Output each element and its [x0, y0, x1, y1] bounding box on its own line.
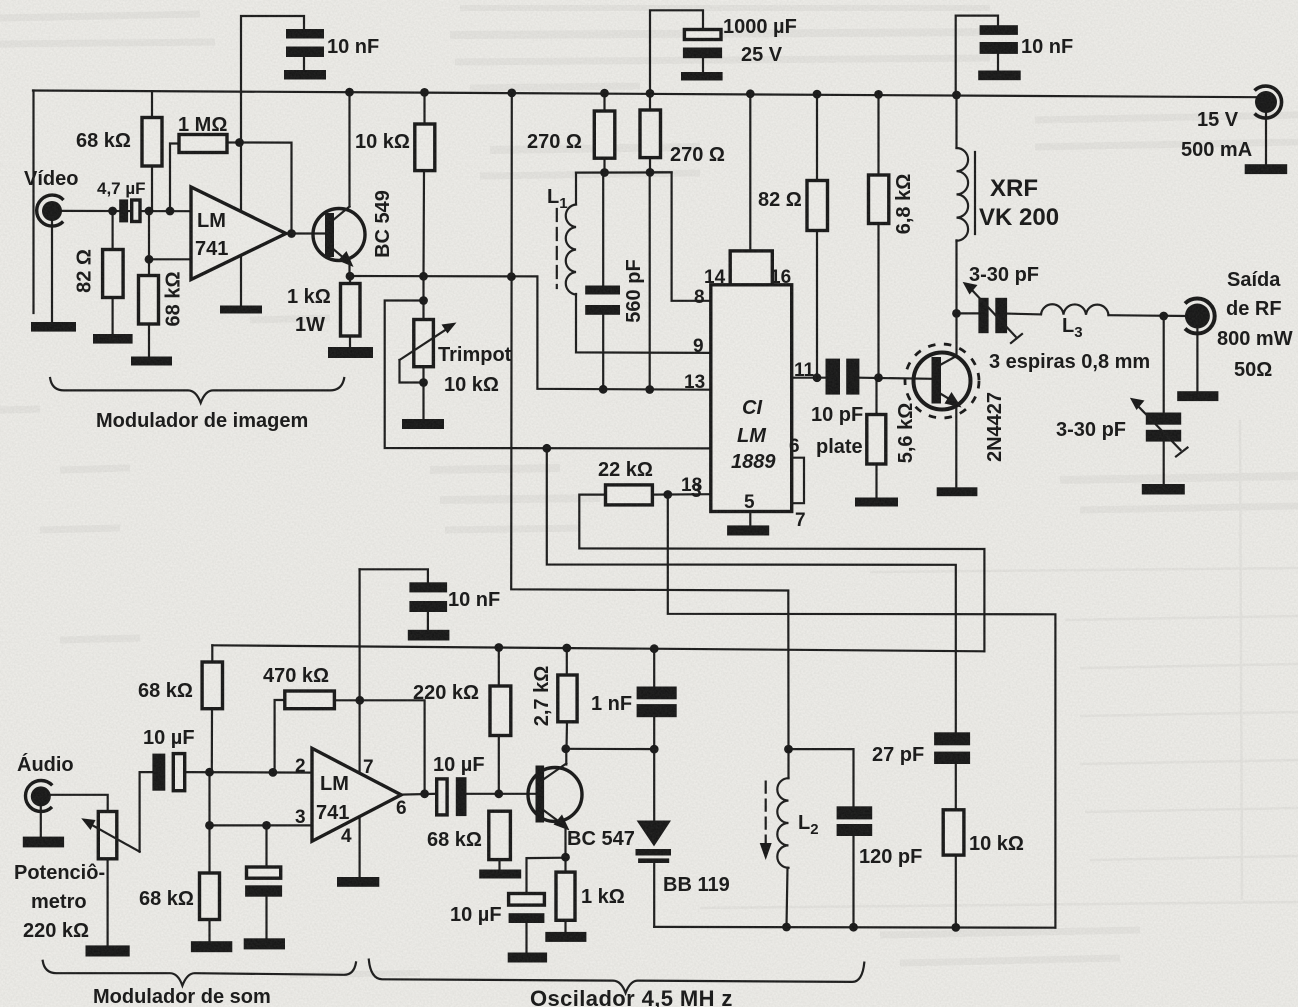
wire C8 ground stub: [265, 897, 267, 939]
pin 7 U2: [363, 757, 374, 778]
wire 270R R8 to pin13 line: [649, 173, 651, 390]
node 1nF-BB119: [650, 745, 659, 754]
capacitor 1000uF C2 plus plate: [684, 30, 721, 40]
wire C7 ground stub: [427, 612, 429, 630]
ground 1k R14: [545, 932, 586, 942]
wire 270R R8 top: [649, 93, 651, 110]
pin 7 LM1889: [795, 510, 806, 531]
node oscrail-2.7k: [562, 644, 571, 653]
label supply 15V: [1197, 109, 1239, 131]
ground 82R R2: [93, 334, 133, 344]
wire 10uF C10 to Q2 base node: [467, 793, 499, 795]
label R8 value: [670, 144, 725, 166]
wire wiper to 10uF C9: [140, 772, 153, 852]
transistor Q3 2N4427: [905, 344, 979, 418]
pin 14 LM1889: [704, 267, 726, 288]
wire pin4 vertical through U2 to ground: [359, 569, 361, 877]
node noninv input: [145, 255, 154, 264]
wire Q2 base lead: [499, 793, 536, 795]
wire audio jack stem: [40, 805, 42, 837]
wire node B bus to 27pF chain: [547, 448, 956, 732]
resistor 68k R1: [142, 118, 162, 167]
brace modulador de imagem: [50, 378, 344, 403]
label R7 value: [527, 131, 582, 153]
wire 220k R16 bottom to output node: [498, 736, 500, 794]
node oscrail-220k: [494, 643, 503, 652]
wire Q3 collector into circle: [955, 313, 957, 357]
node rail-XRF: [952, 91, 961, 100]
connector RF output jack: [1185, 299, 1215, 334]
wire BB119 to bottom bus: [653, 863, 655, 927]
wire 220k R16 top: [498, 646, 500, 686]
wire 1k R5 bottom to ground: [349, 336, 351, 347]
label CV1 value: [969, 264, 1039, 286]
wire Q3 emitter to ground: [955, 404, 957, 487]
resistor 82R R9: [807, 181, 828, 231]
wire L2 bottom lead: [787, 868, 788, 927]
label section oscillator: [530, 986, 733, 1007]
wire trimpot branch to LM1889 left pin: [385, 301, 711, 449]
wire cap C8 branch: [265, 825, 267, 867]
label R5 power: [295, 314, 325, 336]
wire feedback to U2 output: [360, 700, 425, 794]
ground 68k R18: [191, 941, 232, 952]
label Q1 type: [372, 190, 394, 258]
capacitor 10uF C9: [152, 754, 184, 791]
ground Q3 emitter: [937, 487, 978, 496]
wire L2 top lead: [787, 749, 789, 778]
wire 5.6k R11 top: [875, 378, 877, 415]
transistor Q1 BC549: [313, 209, 365, 261]
pin 11 LM1889: [794, 360, 815, 381]
IC pin6-7 loop: [792, 458, 804, 504]
node rail-270a: [600, 89, 609, 98]
wire Q1 emitter down: [348, 263, 350, 276]
ground 5.6k R11: [855, 498, 898, 507]
label CV2 value: [1056, 419, 1126, 441]
node rail-Q1: [345, 88, 354, 97]
node emitter-10k: [419, 272, 428, 281]
wire 270R R8 bottom: [649, 158, 651, 173]
wire 560pF C3 chain bottom: [602, 315, 604, 390]
inductor L3: [1041, 304, 1109, 315]
connector 15V supply jack: [1255, 86, 1282, 118]
connector video jack: [37, 195, 64, 226]
label trimpot value: [444, 374, 499, 396]
wire tank top node: [576, 171, 672, 173]
wire 68k R18 bottom to ground: [208, 920, 210, 942]
wire Q3 collector diagonal: [941, 356, 957, 365]
node Q2 emitter: [561, 853, 570, 862]
ground 68k R20: [479, 870, 521, 879]
capacitor 560pF C3: [585, 286, 620, 315]
wire feedback from U1 output: [240, 143, 292, 234]
node pin3 68k: [205, 821, 214, 830]
wire collector node to trimmer CV1: [957, 312, 979, 314]
wire Q2 collector up: [565, 749, 567, 765]
label C3 value: [623, 259, 645, 322]
wire node A bus from rail to L2 tank: [511, 93, 788, 749]
label RF out 2: [1226, 298, 1282, 320]
capacitor 27pF C13: [934, 732, 970, 764]
wire U1 output to Q1 base: [286, 232, 326, 234]
IC LM1889 top pins 14-16 box: [730, 251, 772, 285]
wire 82R R9 bottom to pin11 node: [816, 231, 818, 378]
label RF out impedance: [1234, 359, 1272, 381]
capacitor 10uF C10: [437, 777, 467, 816]
label section image modulator: [96, 410, 308, 432]
node 470k right: [355, 696, 364, 705]
label pin6 plate: [816, 436, 863, 458]
label R17 value: [263, 665, 329, 687]
wire Q2 emitter diagonal: [544, 811, 564, 826]
wire 68k R20 to ground: [498, 860, 500, 870]
label potentiometer 2: [31, 891, 87, 913]
wire 6.8k R10 bottom to base node: [877, 224, 879, 378]
wire XRF choke bottom to Q3 collector node: [955, 240, 957, 313]
label R12 value: [598, 459, 653, 481]
node bottom 120pF: [849, 923, 858, 932]
label C9 value: [143, 727, 195, 749]
pin 8 LM1889: [694, 287, 705, 308]
node bottom 10k: [951, 923, 960, 932]
resistor 68k R20: [489, 811, 511, 859]
node pin3 cap: [262, 821, 271, 830]
wire inverting node down to 68k R3: [148, 211, 150, 276]
wire 470k R17 left loop: [275, 700, 285, 772]
label U1 name: [195, 210, 228, 260]
node pin12-22k: [663, 490, 672, 499]
wire 82R R2 top: [111, 211, 113, 250]
ground C1: [284, 70, 326, 80]
wire C4 ground stub: [997, 54, 999, 71]
label C4 value: [1021, 36, 1073, 58]
wire C6 ground stub: [525, 923, 527, 953]
wire CV2 bottom to ground: [1163, 442, 1165, 484]
brace modulador de som: [43, 961, 356, 986]
arrow Q1 emitter: [338, 251, 354, 267]
resistor 1k R5: [341, 284, 361, 337]
node rail-82R: [813, 90, 822, 99]
wire 1nF node to Q2 collector node: [566, 748, 655, 750]
ground C8: [244, 938, 285, 949]
ground CV2: [1142, 484, 1185, 495]
label audio input: [17, 753, 74, 776]
wire 82R R2 bottom to ground: [111, 298, 113, 335]
label D1 type: [663, 874, 730, 896]
resistor 22k R12: [606, 485, 653, 505]
trimpot body: [414, 320, 434, 367]
label U2 name: [316, 773, 349, 824]
resistor 68k R18: [200, 873, 220, 920]
node tank top L2: [784, 745, 793, 754]
label XRF type: [979, 204, 1059, 231]
label R10 value: [893, 174, 915, 235]
wire trimpot wiper link: [400, 360, 424, 383]
wire pin3 input line: [210, 824, 313, 826]
wire potentiometer bottom to ground: [106, 859, 108, 946]
label C14 value: [859, 846, 922, 868]
ground potentiometer: [86, 945, 130, 956]
label C10 value: [433, 754, 485, 776]
capacitor 10nF C4: [980, 25, 1018, 54]
node rail-10k: [420, 88, 429, 97]
wire node to BB119 diode: [653, 749, 655, 820]
node 1M feedback: [235, 138, 244, 147]
wire 120pF bottom to bus: [852, 836, 854, 927]
wire 470k R17 right to feedback: [334, 699, 359, 701]
wire L1 bottom to pin9: [576, 294, 711, 353]
op-amp U1 LM741: [191, 187, 286, 280]
node video-68k: [145, 207, 154, 216]
wire Q1 emitter diagonal: [332, 248, 349, 262]
node trimpot top: [419, 296, 428, 305]
wire 1M R4 right end: [227, 141, 240, 143]
wire CV1 to L3: [1007, 313, 1041, 316]
resistor 10k R6: [415, 124, 435, 171]
label C2 voltage: [741, 44, 783, 66]
label supply current: [1181, 139, 1252, 161]
label R9 value: [758, 189, 802, 211]
node oscrail-1nF: [650, 644, 659, 653]
trimpot arrow: [400, 323, 457, 361]
wire tank top node to 120pF: [789, 749, 854, 806]
label C12 value: [811, 404, 863, 426]
wire 22k R12 right to pin12: [652, 493, 710, 496]
ground LM1889 pin5: [727, 525, 769, 535]
wire LM1889 pin5 ground stub: [749, 512, 751, 526]
label R19 value: [969, 833, 1024, 855]
capacitor 10uF C6: [509, 894, 545, 924]
pin 3 U2: [295, 807, 306, 828]
label Q2 type: [567, 828, 635, 850]
label C11 value: [97, 179, 146, 198]
resistor 1M R4: [179, 135, 227, 153]
ground C2: [681, 72, 723, 81]
wire 1k R14 bottom to ground: [564, 920, 566, 932]
wire Q2 emitter down: [564, 826, 566, 857]
label C5 value: [591, 693, 632, 715]
wire 1k R5 top: [349, 276, 351, 283]
wire 10nF C1 loop from rail: [241, 16, 304, 93]
wire L1 top lead: [575, 173, 577, 205]
wire video jack stem: [51, 219, 53, 322]
node pin13-560pF: [599, 385, 608, 394]
resistor 270R R8: [640, 110, 661, 158]
node rail-6.8k: [874, 90, 883, 99]
label C6 value: [450, 904, 502, 926]
wire 27pF to 10k chain: [955, 764, 957, 810]
wire +15V top supply rail: [33, 91, 1257, 98]
ground audio jack: [23, 837, 64, 848]
wire 2.7k R13 bottom: [565, 722, 568, 749]
capacitor 4.7uF C11: [119, 199, 140, 222]
pin 13 LM1889: [684, 372, 705, 393]
wire non-inverting input to op-amp U1: [149, 258, 191, 260]
wire to LM1889 pin8: [650, 172, 711, 300]
wire emitter node to 10uF C6: [527, 858, 566, 894]
inductor XRF choke: [957, 148, 969, 241]
resistor 82R R2: [103, 250, 124, 298]
wire 10nF C4 loop top right: [956, 16, 998, 95]
wire 22k R12 left loop to oscillator rail: [579, 495, 984, 652]
label R20 value: [427, 829, 482, 851]
capacitor 10nF C7: [409, 582, 447, 612]
pin 4 U2: [341, 826, 352, 847]
wire pin4 vertical through U1 to ground: [240, 93, 242, 306]
node pin13-270b: [645, 385, 654, 394]
node video-1M: [166, 207, 175, 216]
node video-82R: [108, 207, 117, 216]
wire RF jack stem: [1196, 329, 1198, 391]
wire 10nF C7 branch: [360, 569, 428, 582]
resistor 6.8k R10: [869, 175, 889, 224]
inductor L2 core dashed arrow: [760, 782, 772, 860]
capacitor 10pF C12: [826, 359, 860, 395]
node trimpot bottom: [419, 378, 428, 387]
node bottom L2: [782, 923, 791, 932]
capacitor 120pF C14: [837, 806, 873, 836]
resistor 68k R3: [139, 276, 159, 325]
label R1 value: [76, 130, 131, 152]
wire 560pF C3 chain top: [602, 173, 604, 286]
wire Q3 emitter diagonal: [941, 394, 955, 403]
pin 6 LM1889: [789, 436, 800, 457]
inductor L2: [777, 778, 788, 868]
label R13 value: [531, 666, 553, 727]
inductor L1 core dashed: [556, 209, 558, 288]
pin 12 LM1889 overprinted: [681, 475, 702, 502]
node tank top L1 a: [600, 168, 609, 177]
ground video jack: [31, 322, 76, 332]
label R16 value: [413, 682, 479, 704]
node pin11-82R: [813, 373, 822, 382]
wire 68k R1 top to rail: [151, 91, 153, 117]
wire node D bus pin12 to tank bottom: [668, 495, 1056, 928]
node rail-pin14: [746, 89, 755, 98]
label video input: [24, 168, 78, 190]
label C2 value: [723, 16, 797, 38]
label C1 value: [327, 36, 379, 58]
label RF out power: [1217, 328, 1293, 350]
node pin2 68k: [205, 768, 214, 777]
wire L3 to RF output jack: [1108, 314, 1186, 317]
node pin11-base: [874, 373, 883, 382]
label potentiometer 1: [14, 862, 105, 884]
capacitor C8: [245, 867, 282, 897]
resistor 68k R15: [202, 662, 222, 709]
wire sound rail left drop to 68k R15: [211, 645, 213, 662]
label R11 value: [895, 403, 917, 464]
pin 2 U2: [295, 756, 306, 777]
pin 16 LM1889: [770, 267, 791, 288]
wire 1k R14 top: [564, 857, 566, 872]
capacitor 1nF C5: [637, 687, 677, 718]
resistor 1k R14: [556, 872, 575, 920]
node Q1 emitter: [346, 272, 355, 281]
ground C7: [408, 630, 450, 641]
label R14 value: [581, 886, 625, 908]
ground RF jack: [1177, 391, 1218, 401]
resistor 470k R17: [285, 691, 335, 709]
label C7 value: [448, 589, 500, 611]
wire trimpot top: [422, 276, 424, 319]
node busB tap: [542, 444, 551, 453]
capacitor 10nF C1: [286, 29, 324, 57]
label L3 spec: [989, 351, 1150, 373]
wire 1000uF C2 loop: [650, 10, 703, 93]
label R6 value: [355, 131, 410, 153]
ground 68k R3: [131, 357, 172, 366]
node Q3 collector: [952, 309, 961, 318]
wire video jack to op-amp input: [60, 210, 191, 213]
brace oscilador: [369, 960, 865, 993]
node tank top L1 b: [646, 168, 655, 177]
resistor 2.7k R13: [558, 675, 577, 722]
node emitter-busA: [507, 272, 516, 281]
ground 1k R5: [328, 347, 373, 358]
trimmer capacitor CV2: [1130, 398, 1188, 457]
node 2.7k-collector: [561, 744, 570, 753]
wire node to 1M R4 left end: [170, 144, 179, 212]
arrow Q3 emitter: [945, 392, 962, 408]
ground 15V jack: [1245, 164, 1288, 174]
pin 9 LM1889: [693, 336, 704, 357]
wire 5.6k R11 bottom to ground: [875, 464, 877, 498]
label section sound modulator: [93, 986, 271, 1007]
label R3 value: [163, 272, 185, 327]
label L2 name: [798, 812, 819, 838]
wire Q2 collector diagonal: [544, 764, 566, 780]
label R18 value: [139, 888, 194, 910]
ground C4: [978, 71, 1021, 81]
label trimpot: [438, 344, 512, 366]
wire LM1889 pin14-16 to rail: [749, 94, 751, 251]
wire audio jack to potentiometer top: [50, 795, 108, 812]
node rail-270b: [646, 89, 655, 98]
node rail-busA: [507, 89, 516, 98]
wire 270R R7 top: [603, 93, 605, 111]
inductor XRF core bar: [974, 152, 976, 234]
potentiometer wiper arrow: [81, 818, 139, 851]
pin 5 LM1889: [744, 492, 755, 513]
wire XRF choke top: [955, 95, 957, 148]
capacitor 1000uF C2 minus plate: [683, 48, 722, 59]
wire 10pF to Q3 base: [859, 378, 931, 379]
label R5 value: [287, 286, 331, 308]
wire 270R R7 bottom: [603, 158, 605, 172]
wire 1nF C5 bottom to node: [653, 717, 655, 749]
diode BB119 varicap: [636, 821, 672, 864]
inductor L1: [566, 205, 576, 295]
node pin2 470k: [269, 768, 278, 777]
wire 68k R1 bottom to video node: [151, 166, 153, 211]
label Q3 type: [984, 392, 1006, 462]
wire 10k R6 top to rail: [423, 92, 425, 124]
wire 68k R15 bottom to pin2 node: [211, 709, 213, 773]
label potentiometer value: [23, 920, 89, 942]
ground C6: [508, 953, 547, 963]
ground op-amp U1: [220, 306, 262, 314]
wire 68k R3 bottom to ground: [148, 324, 150, 357]
resistor 270R R7: [594, 111, 615, 158]
label U3 CI: [731, 397, 776, 473]
wire 2.7k R13 top: [566, 646, 568, 675]
label L1 name: [547, 186, 568, 212]
resistor 220k R16: [490, 686, 511, 736]
connector audio jack: [25, 780, 52, 811]
wire pin3 node down to 68k R18: [208, 772, 210, 873]
